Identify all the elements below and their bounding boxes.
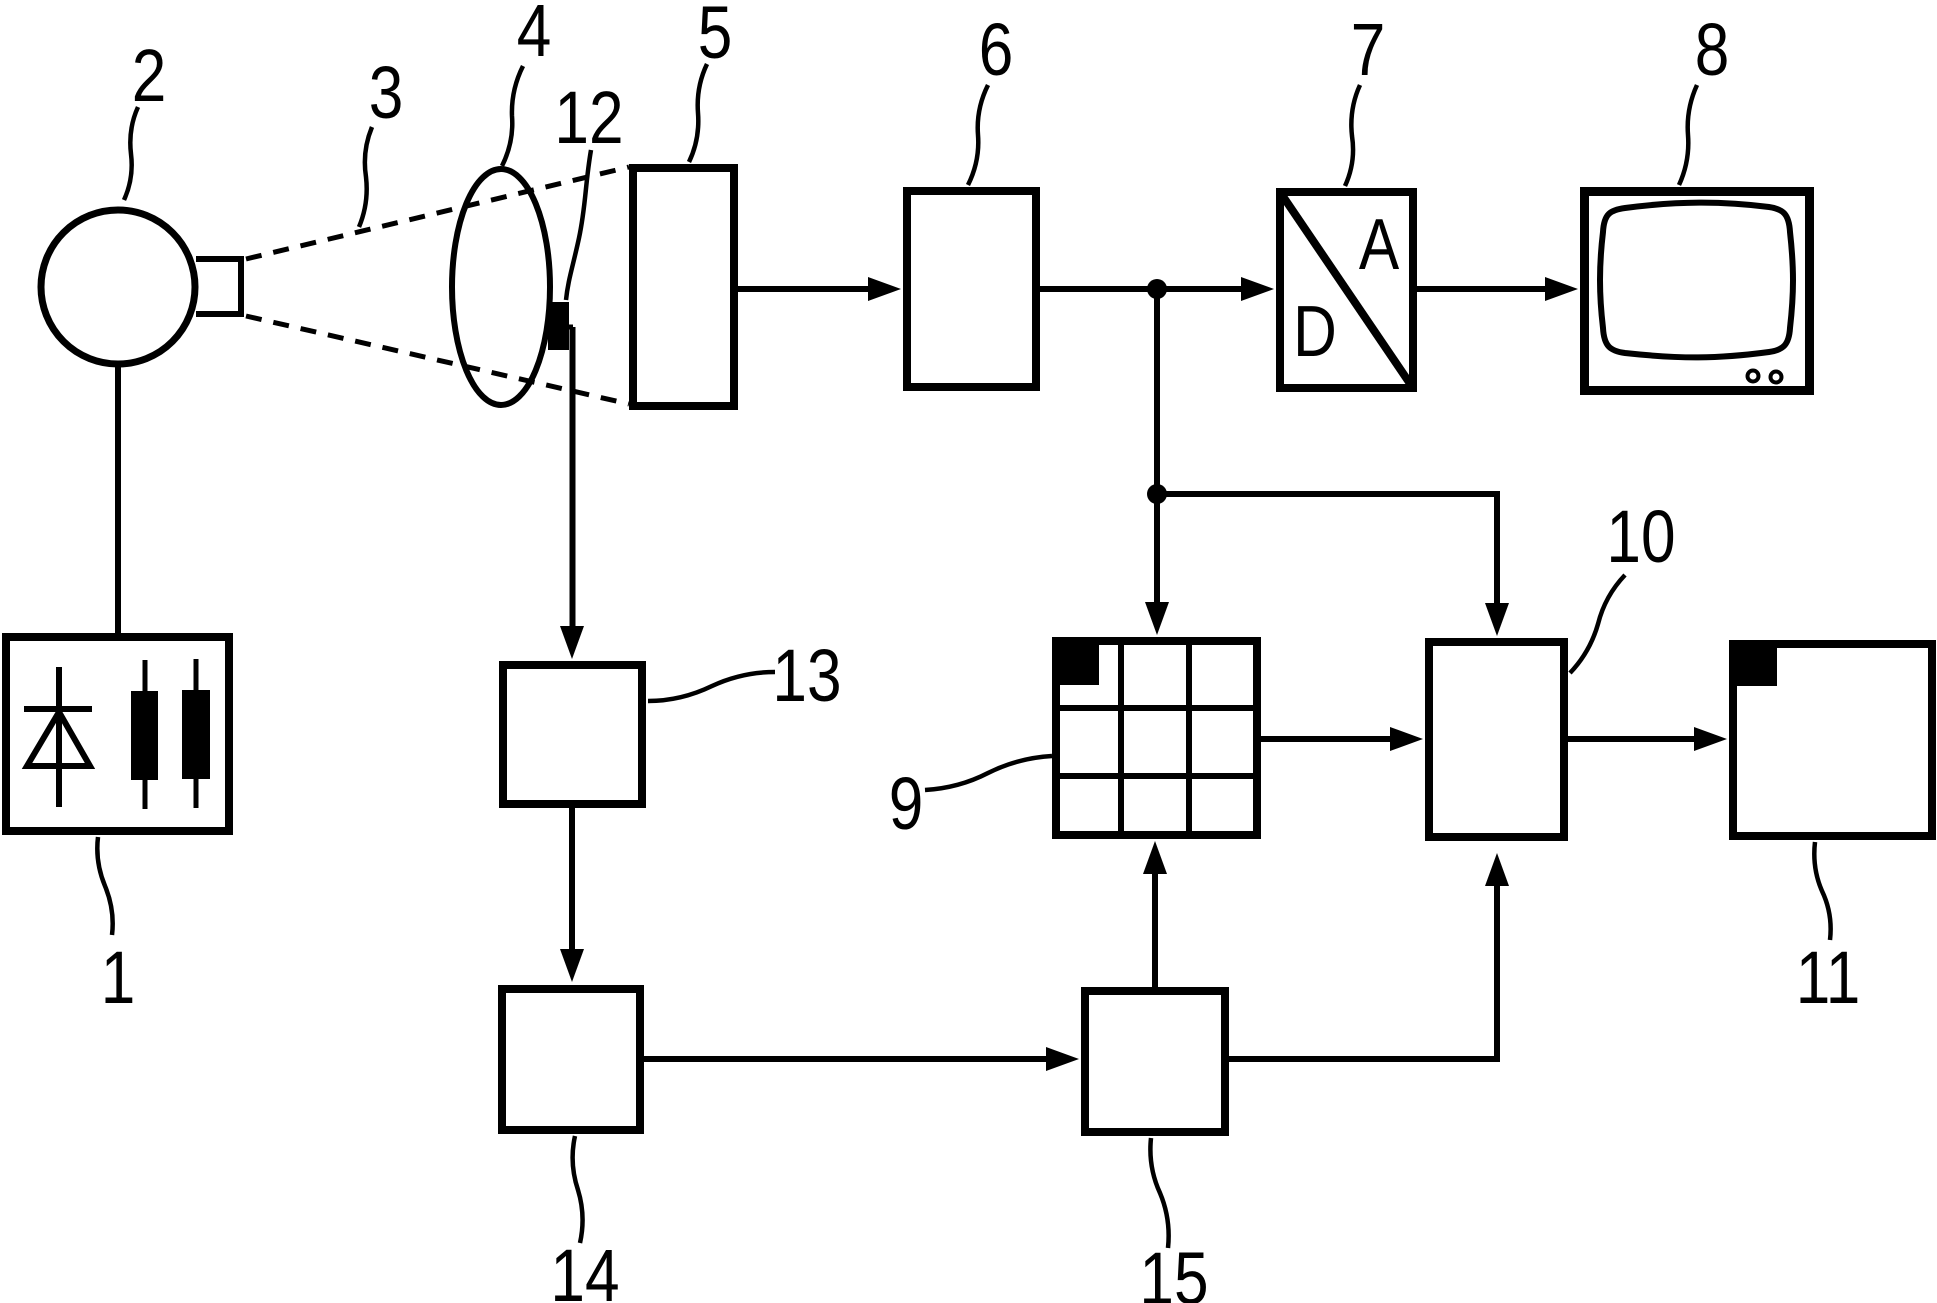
svg-text:9: 9 [889,763,924,845]
svg-text:5: 5 [698,0,733,74]
svg-text:A: A [1359,205,1400,285]
svg-text:7: 7 [1351,9,1386,91]
svg-text:3: 3 [369,52,404,134]
svg-text:15: 15 [1139,1238,1208,1303]
svg-text:13: 13 [772,635,841,717]
svg-text:8: 8 [1695,9,1730,91]
svg-text:6: 6 [979,9,1014,91]
svg-text:D: D [1293,292,1337,372]
svg-text:14: 14 [550,1235,619,1303]
svg-text:12: 12 [554,77,623,159]
svg-text:4: 4 [517,0,552,72]
svg-text:1: 1 [101,937,136,1019]
svg-text:11: 11 [1796,937,1861,1019]
svg-text:10: 10 [1606,496,1675,578]
svg-text:2: 2 [132,35,167,117]
